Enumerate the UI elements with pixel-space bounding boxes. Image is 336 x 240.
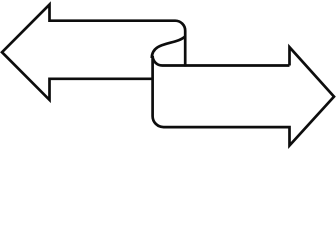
folded ribbon double arrow figure <box>0 0 336 155</box>
curl S-fold edge <box>152 36 185 58</box>
fold crease corner into right shaft top edge <box>153 56 290 66</box>
left arrow (top band) <box>2 5 185 100</box>
right arrow (bottom band) <box>153 47 334 145</box>
